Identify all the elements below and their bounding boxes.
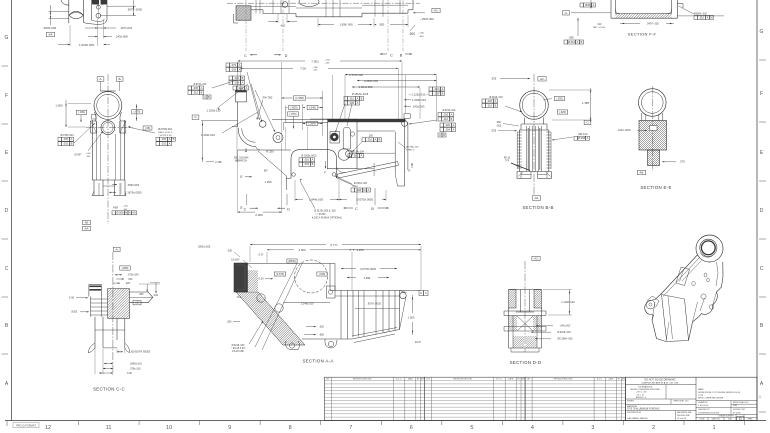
svg-text:1/4-28 UNF: 1/4-28 UNF xyxy=(232,351,244,353)
svg-text:Ø.079A-.004: Ø.079A-.004 xyxy=(406,146,419,149)
svg-text:.670±.004: .670±.004 xyxy=(127,274,139,277)
svg-text:.444: .444 xyxy=(153,294,158,297)
svg-text:SHAR: SHAR xyxy=(748,418,753,421)
svg-text:C: C xyxy=(244,208,247,212)
svg-text:C: C xyxy=(355,207,358,211)
svg-text:11: 11 xyxy=(106,425,112,431)
svg-text:.XXX ± .005: .XXX ± .005 xyxy=(636,392,648,394)
svg-text:-A6-: -A6- xyxy=(534,196,539,200)
svg-text:.035: .035 xyxy=(227,250,232,253)
svg-text:-.250±.002: -.250±.002 xyxy=(420,17,434,21)
svg-text:D: D xyxy=(285,54,288,58)
svg-text:F. BLOGGS: F. BLOGGS xyxy=(698,405,709,407)
svg-text:DATE: DATE xyxy=(508,378,514,381)
svg-text:(.640): (.640) xyxy=(309,105,316,109)
svg-text:SECTION F-F: SECTION F-F xyxy=(628,31,657,36)
svg-text:(.190): (.190) xyxy=(78,110,85,114)
svg-text:7.00: 7.00 xyxy=(300,67,306,71)
svg-text:(.250): (.250) xyxy=(556,96,563,100)
view: top-left plan view (partial) xyxy=(43,0,143,47)
svg-text:A: A xyxy=(204,95,206,99)
svg-text:.098: .098 xyxy=(568,36,574,40)
svg-text:1: 1 xyxy=(713,425,716,431)
svg-text:-B-: -B- xyxy=(118,77,122,81)
svg-text:-A-: -A- xyxy=(99,77,103,81)
svg-text:R0.15: R0.15 xyxy=(504,158,511,160)
svg-text:.079: .079 xyxy=(231,63,237,67)
svg-text:2.996: 2.996 xyxy=(364,276,371,280)
svg-text:Ø.1560±.0015: Ø.1560±.0015 xyxy=(301,154,317,157)
svg-text:+.036: +.036 xyxy=(312,67,318,69)
svg-text:Ø.437: Ø.437 xyxy=(74,153,82,157)
svg-text:NAME: NAME xyxy=(698,388,704,391)
svg-text:.1610-.0015: .1610-.0015 xyxy=(617,129,631,132)
svg-text:6.777: 6.777 xyxy=(331,243,338,247)
svg-text:.520: .520 xyxy=(319,325,324,328)
svg-text:B: B xyxy=(442,91,444,95)
svg-text:6: 6 xyxy=(410,425,413,431)
svg-text:C: C xyxy=(390,53,393,57)
svg-text:.020: .020 xyxy=(238,86,244,90)
svg-text:TITLE: TITLE xyxy=(698,395,704,397)
svg-text:-A1-: -A1- xyxy=(433,9,438,13)
svg-text:.010: .010 xyxy=(304,158,310,162)
svg-text:A: A xyxy=(453,127,455,131)
svg-text:D: D xyxy=(287,208,290,212)
svg-text:THRU: THRU xyxy=(352,186,358,188)
view: SECTION B-B xyxy=(482,74,592,210)
revision record tables xyxy=(324,377,626,420)
svg-text:.250±.004: .250±.004 xyxy=(43,26,57,30)
svg-text:(.354): (.354) xyxy=(308,121,315,125)
svg-text:DRAWN BY: DRAWN BY xyxy=(698,401,708,404)
svg-text:7: 7 xyxy=(349,425,352,431)
fcf boxes right of main view xyxy=(409,87,456,137)
svg-text:B: B xyxy=(379,138,381,142)
svg-text:-C-: -C- xyxy=(564,11,568,15)
svg-text:BY 001/8: BY 001/8 xyxy=(733,412,740,414)
bottom zone numbers xyxy=(7,421,745,432)
svg-text:+.008: +.008 xyxy=(122,205,128,207)
svg-text:.410: .410 xyxy=(280,24,286,28)
svg-text:D: D xyxy=(760,208,764,214)
svg-text:.500: .500 xyxy=(409,32,415,36)
svg-text:25-Jun-98: 25-Jun-98 xyxy=(677,418,687,420)
svg-text:.059±.003: .059±.003 xyxy=(127,183,139,187)
svg-text:3.604±.003: 3.604±.003 xyxy=(359,85,373,89)
svg-text:.004: .004 xyxy=(445,127,451,131)
svg-text:+.000: +.000 xyxy=(324,60,330,62)
svg-text:A: A xyxy=(593,3,595,7)
svg-text:.010: .010 xyxy=(699,15,705,19)
svg-text:3.0779±.0025: 3.0779±.0025 xyxy=(360,267,376,271)
svg-text:.010: .010 xyxy=(487,103,493,107)
svg-text:WELDING SPA: WELDING SPA xyxy=(677,414,690,417)
svg-text:G: G xyxy=(5,35,9,41)
svg-text:.376±.010: .376±.010 xyxy=(129,367,141,370)
svg-text:DATE: DATE xyxy=(408,378,414,381)
svg-text:B: B xyxy=(71,142,73,146)
svg-text:.002: .002 xyxy=(63,142,69,146)
svg-text:E.C.O.: E.C.O. xyxy=(497,379,503,381)
svg-text:-A-: -A- xyxy=(115,247,119,251)
svg-text:G: G xyxy=(760,29,764,35)
svg-text:DATE: DATE xyxy=(609,378,615,381)
svg-text:Ø.0919-.004: Ø.0919-.004 xyxy=(489,96,503,99)
sheet border right line xyxy=(756,0,758,421)
svg-text:-C-: -C- xyxy=(586,121,590,125)
svg-text:1.003±.010: 1.003±.010 xyxy=(412,98,426,102)
svg-text:B: B xyxy=(581,40,583,44)
svg-text:.002: .002 xyxy=(161,142,167,146)
svg-text:ANGLE ± 2: ANGLE ± 2 xyxy=(636,396,647,399)
svg-text:2.180: 2.180 xyxy=(215,160,222,164)
svg-text:PRO-D FORMAT: PRO-D FORMAT xyxy=(16,423,36,427)
svg-text:UNLESS OTHERWISE SPECIFIED: UNLESS OTHERWISE SPECIFIED xyxy=(630,389,661,391)
svg-text:.930 .010 MAX: .930 .010 MAX xyxy=(233,157,249,160)
svg-text:REVISION RECORD: REVISION RECORD xyxy=(353,379,372,381)
svg-text:A: A xyxy=(577,40,579,44)
svg-text:1.844±.003: 1.844±.003 xyxy=(309,197,323,201)
svg-text:-A4-: -A4- xyxy=(48,33,53,37)
svg-text:R.250: R.250 xyxy=(266,150,274,154)
view: isometric view of lower receiver xyxy=(645,235,723,342)
svg-text:DISTRIBUTION: DISTRIBUTION xyxy=(627,412,642,414)
svg-text:1.385: 1.385 xyxy=(582,101,589,105)
svg-text:THRU .35 Ø .9: THRU .35 Ø .9 xyxy=(158,132,173,134)
svg-text:A: A xyxy=(242,80,244,84)
svg-text:IDENT NO.: IDENT NO. xyxy=(712,419,721,421)
svg-text:Ø056A-.010: Ø056A-.010 xyxy=(694,12,708,15)
svg-text:+.004: +.004 xyxy=(85,153,91,155)
svg-text:.310: .310 xyxy=(597,23,602,26)
svg-text:.010: .010 xyxy=(434,87,440,91)
svg-text:6.375±.002: 6.375±.002 xyxy=(349,73,363,77)
svg-text:2: 2 xyxy=(652,425,655,431)
view: SECTION F-F xyxy=(563,0,724,44)
svg-text:10.0°: 10.0° xyxy=(415,340,422,344)
svg-text:A: A xyxy=(442,87,444,91)
view: main side profile of lower receiver xyxy=(232,91,419,220)
svg-text:F: F xyxy=(409,169,411,173)
svg-text:.005: .005 xyxy=(231,67,237,71)
svg-text:.010: .010 xyxy=(234,76,240,80)
svg-text:MISMATCH: MISMATCH xyxy=(235,160,247,163)
svg-text:(.625): (.625) xyxy=(319,273,326,276)
svg-text:.005: .005 xyxy=(434,91,440,95)
svg-text:6.30: 6.30 xyxy=(69,296,75,300)
view: SECTION A-A xyxy=(181,243,428,364)
svg-text:SECTION B-B: SECTION B-B xyxy=(522,205,553,210)
svg-text:REVISION RECORD: REVISION RECORD xyxy=(554,379,573,381)
svg-text:.9079-.0035: .9079-.0035 xyxy=(367,301,381,305)
svg-text:B: B xyxy=(361,96,363,100)
svg-text:.0005: .0005 xyxy=(584,3,591,7)
view: SECTION D-D xyxy=(489,256,576,365)
svg-text:.200: .200 xyxy=(227,320,232,323)
svg-text:THIRD SPEC. NO.: THIRD SPEC. NO. xyxy=(673,401,689,403)
svg-text:(.975): (.975) xyxy=(289,112,296,116)
svg-text:SECTION C-C: SECTION C-C xyxy=(93,387,125,392)
svg-text:.010: .010 xyxy=(367,138,373,142)
svg-text:A: A xyxy=(246,86,248,90)
svg-text:Øß.124: Øß.124 xyxy=(579,132,588,136)
svg-text:#.230 X 90 MAX OPTIONAL: #.230 X 90 MAX OPTIONAL xyxy=(312,216,343,219)
svg-text:.010: .010 xyxy=(443,117,449,121)
svg-text:.020: .020 xyxy=(445,123,451,127)
svg-text:B: B xyxy=(173,137,175,141)
view: SECTION C-C xyxy=(69,247,161,391)
svg-text:6.30: 6.30 xyxy=(258,277,264,281)
svg-text:FINISH: FINISH xyxy=(627,401,634,403)
view: top-center plan view (partial) xyxy=(221,0,440,58)
svg-text:SHT/SHLT NLT: SHT/SHLT NLT xyxy=(733,409,746,411)
svg-text:1.129±.010: 1.129±.010 xyxy=(561,300,575,304)
svg-text:A: A xyxy=(201,86,203,90)
svg-text:.005: .005 xyxy=(193,86,199,90)
svg-text:A: A xyxy=(312,158,314,162)
svg-text:D: D xyxy=(5,208,9,214)
svg-text:2.560: 2.560 xyxy=(299,248,306,252)
svg-text:CONVERSION EDITIONS: CONVERSION EDITIONS xyxy=(698,412,720,414)
svg-text:CAD NAME: MACHD: CAD NAME: MACHD xyxy=(627,417,648,420)
svg-text:A: A xyxy=(169,137,171,141)
svg-text:A: A xyxy=(439,133,441,137)
svg-text:Ø.0125-.003: Ø.0125-.003 xyxy=(557,331,571,334)
svg-text:B: B xyxy=(208,95,210,99)
svg-text:⌗ 1.125±.010 ↲: ⌗ 1.125±.010 ↲ xyxy=(409,93,428,97)
svg-text:B: B xyxy=(201,90,203,94)
svg-text:.005: .005 xyxy=(487,99,493,103)
svg-text:15.000°: 15.000° xyxy=(231,258,240,261)
svg-text:A: A xyxy=(587,136,589,140)
svg-text:Ø.008: Ø.008 xyxy=(578,136,586,140)
svg-text:1.249±.010: 1.249±.010 xyxy=(301,301,315,305)
svg-text:.680: .680 xyxy=(319,333,324,336)
svg-text:12: 12 xyxy=(45,425,51,431)
svg-text:.143±.003: .143±.003 xyxy=(412,104,425,108)
svg-text:M: M xyxy=(710,15,712,19)
sheet border bottom line xyxy=(5,420,766,422)
svg-text:AA: AA xyxy=(132,211,136,215)
svg-text:(.868): (.868) xyxy=(122,266,129,270)
svg-text:-C-: -C- xyxy=(194,115,198,119)
svg-text:SECTION A-A: SECTION A-A xyxy=(302,358,333,363)
right zone letters xyxy=(759,29,766,412)
svg-text:-A2-: -A2- xyxy=(539,77,544,81)
svg-text:1.000: 1.000 xyxy=(55,104,63,108)
svg-text:.3056±.010: .3056±.010 xyxy=(129,362,142,365)
svg-text:7.361: 7.361 xyxy=(311,59,319,63)
dimension stack above main side view xyxy=(226,59,440,132)
svg-text:-AC-: -AC- xyxy=(134,301,140,305)
svg-text:(R500): (R500) xyxy=(288,260,296,263)
svg-text:A: A xyxy=(495,99,497,103)
svg-text:A: A xyxy=(169,142,171,146)
svg-text:SECTION D-D: SECTION D-D xyxy=(510,360,542,365)
svg-text:-AA-: -AA- xyxy=(84,226,89,230)
svg-text:1.250: 1.250 xyxy=(265,180,272,184)
svg-text:Ø.023A-.001: Ø.023A-.001 xyxy=(442,109,456,112)
svg-text:B: B xyxy=(242,76,244,80)
svg-text:.005: .005 xyxy=(63,137,69,141)
svg-text:.9079-.0035: .9079-.0035 xyxy=(127,8,142,12)
svg-text:(.605): (.605) xyxy=(290,105,297,109)
svg-text:2.300: 2.300 xyxy=(255,213,263,217)
svg-text:M: M xyxy=(363,188,365,192)
svg-text:60°: 60° xyxy=(264,169,268,173)
svg-text:A: A xyxy=(71,137,73,141)
svg-text:A: A xyxy=(707,15,709,19)
svg-text:.8025: .8025 xyxy=(71,311,78,314)
svg-text:4: 4 xyxy=(531,425,534,431)
svg-text:Ø.079A-.001: Ø.079A-.001 xyxy=(193,83,207,86)
svg-text:.220: .220 xyxy=(125,282,130,285)
svg-text:(.625): (.625) xyxy=(559,110,566,114)
svg-text:-.002: -.002 xyxy=(496,126,502,128)
svg-text:Ø.079±.004: Ø.079±.004 xyxy=(60,134,74,137)
svg-text:3.084±.003: 3.084±.003 xyxy=(364,79,378,83)
svg-text:.010: .010 xyxy=(353,154,359,158)
svg-text:.100 BOTH SIDES: .100 BOTH SIDES xyxy=(130,351,151,354)
title block xyxy=(626,377,763,421)
svg-text:CHECKED BY: CHECKED BY xyxy=(698,409,710,411)
svg-text:M: M xyxy=(125,211,127,215)
svg-text:A: A xyxy=(368,188,370,192)
svg-text:A: A xyxy=(129,211,131,215)
svg-text:R4.750: R4.750 xyxy=(263,95,273,99)
svg-text:.950: .950 xyxy=(379,23,385,27)
svg-text:A: A xyxy=(357,101,359,105)
svg-text:.335: .335 xyxy=(139,293,144,296)
svg-text:CODE: CODE xyxy=(700,419,706,421)
svg-text:F: F xyxy=(5,93,8,99)
svg-text:A: A xyxy=(453,123,455,127)
svg-text:.563±.002: .563±.002 xyxy=(198,245,211,249)
svg-text:C: C xyxy=(244,54,247,58)
svg-text:6.0°: 6.0° xyxy=(258,253,263,257)
svg-text:E: E xyxy=(420,291,422,295)
svg-text:.375: .375 xyxy=(679,160,685,164)
svg-text:A: A xyxy=(239,67,241,71)
svg-text:Ø.2504-.003: Ø.2504-.003 xyxy=(354,182,368,185)
svg-text:8: 8 xyxy=(289,425,292,431)
svg-text:+.000: +.000 xyxy=(418,32,424,34)
svg-text:Ø0.156A-.005: Ø0.156A-.005 xyxy=(558,338,574,341)
svg-text:THRU ¹2: THRU ¹2 xyxy=(406,148,415,151)
svg-text:MFG LOWER RECEIVER: MFG LOWER RECEIVER xyxy=(698,398,724,400)
svg-text:5: 5 xyxy=(470,425,473,431)
svg-text:MACHINING SPA: MACHINING SPA xyxy=(677,411,692,414)
svg-text:.333: .333 xyxy=(491,77,497,81)
svg-text:.150: .150 xyxy=(128,278,133,281)
svg-text:3.265: 3.265 xyxy=(357,248,364,252)
svg-text:Ø.008: Ø.008 xyxy=(116,211,124,215)
svg-text:.010: .010 xyxy=(349,96,355,100)
svg-text:3.0375±.0050: 3.0375±.0050 xyxy=(356,197,374,201)
svg-text:DO NOT SCALE DRAWING: DO NOT SCALE DRAWING xyxy=(644,378,675,381)
svg-text:3: 3 xyxy=(591,425,594,431)
svg-text:.004: .004 xyxy=(304,162,310,166)
svg-text:B: B xyxy=(451,117,453,121)
svg-text:DRAWN NUMBER: DRAWN NUMBER xyxy=(718,414,734,417)
svg-text:SECTION E-E: SECTION E-E xyxy=(640,185,671,190)
svg-text:Ø.6218-.003: Ø.6218-.003 xyxy=(232,345,245,347)
svg-text:C: C xyxy=(760,266,764,272)
labels between front view and main view xyxy=(188,80,258,164)
svg-text:Ø.0793±.004: Ø.0793±.004 xyxy=(158,128,172,131)
svg-text:A: A xyxy=(375,138,377,142)
svg-text:Ø.010: Ø.010 xyxy=(568,40,576,44)
svg-text:6.30: 6.30 xyxy=(127,372,132,375)
svg-text:(1.968): (1.968) xyxy=(295,96,304,100)
svg-text:.250: .250 xyxy=(496,121,501,124)
svg-text:B: B xyxy=(443,133,445,137)
svg-text:.004: .004 xyxy=(234,80,240,84)
svg-text:B: B xyxy=(312,162,314,166)
svg-text:.438: .438 xyxy=(112,205,118,209)
svg-text:9: 9 xyxy=(228,425,231,431)
svg-text:1.998-.006: 1.998-.006 xyxy=(339,23,353,27)
svg-text:.005: .005 xyxy=(161,137,167,141)
svg-text:(.679): (.679) xyxy=(134,110,141,114)
svg-text:TYP: TYP xyxy=(505,161,510,163)
svg-text:1.003: 1.003 xyxy=(408,315,415,319)
svg-text:C: C xyxy=(5,266,9,272)
svg-text:└┘ Ø.250: └┘ Ø.250 xyxy=(315,212,326,216)
svg-text:Ø.1563A-.0015: Ø.1563A-.0015 xyxy=(352,93,369,96)
svg-text:A: A xyxy=(451,112,453,116)
svg-text:(2.675): (2.675) xyxy=(276,273,284,276)
svg-text:E.C.O.: E.C.O. xyxy=(597,379,603,381)
format stamp PRO-D FORMAT xyxy=(13,423,39,428)
svg-text:.XX ± .01: .XX ± .01 xyxy=(636,394,645,396)
svg-text:-A6-: -A6- xyxy=(639,171,644,175)
svg-text:F: F xyxy=(324,170,326,174)
svg-text:10: 10 xyxy=(166,425,172,431)
svg-text:A: A xyxy=(357,96,359,100)
svg-text:7075 T6 ALUMINUM FORGING: 7075 T6 ALUMINUM FORGING xyxy=(627,408,660,411)
sheet border left line xyxy=(11,0,13,421)
svg-text:.005: .005 xyxy=(443,112,449,116)
left zone letters xyxy=(2,35,9,387)
svg-text:.167±.010: .167±.010 xyxy=(120,26,133,30)
svg-text:1.304±.010: 1.304±.010 xyxy=(201,133,215,137)
svg-text:C: C xyxy=(425,291,427,295)
svg-text:.1879±.0050: .1879±.0050 xyxy=(127,191,142,195)
svg-text:-68-: -68- xyxy=(84,220,89,224)
view: SECTION E-E xyxy=(609,86,697,190)
svg-text:E.C.O.: E.C.O. xyxy=(396,379,402,381)
svg-text:TAP # PLUG: TAP # PLUG xyxy=(593,26,606,29)
svg-text:A: A xyxy=(239,63,241,67)
svg-text:.250: .250 xyxy=(368,135,373,138)
svg-text:DIMENSIONS ARE IN ■ IN. CM:: DIMENSIONS ARE IN ■ IN. CM: CIM. xyxy=(642,381,679,384)
svg-text:.047A-.005: .047A-.005 xyxy=(646,23,659,26)
svg-text:-A2-: -A2- xyxy=(533,257,538,261)
svg-text:A: A xyxy=(361,154,363,158)
svg-text:└ Ø.223 X 90°: └ Ø.223 X 90° xyxy=(158,134,172,137)
svg-text:-.004: -.004 xyxy=(419,36,425,38)
svg-text:IMPET/SCALE FUL: IMPET/SCALE FUL xyxy=(733,401,749,404)
svg-text:(.08): (.08) xyxy=(145,127,150,130)
svg-text:DRWN FROM COLT M16/M4 DATED 8-: DRWN FROM COLT M16/M4 DATED 8-14-94 xyxy=(698,391,741,394)
svg-text:REVISION RECORD: REVISION RECORD xyxy=(453,379,472,381)
svg-text:.043±.002: .043±.002 xyxy=(560,325,571,328)
svg-text:.712: .712 xyxy=(236,296,241,299)
svg-text:B: B xyxy=(495,103,497,107)
svg-text:F: F xyxy=(760,91,763,97)
